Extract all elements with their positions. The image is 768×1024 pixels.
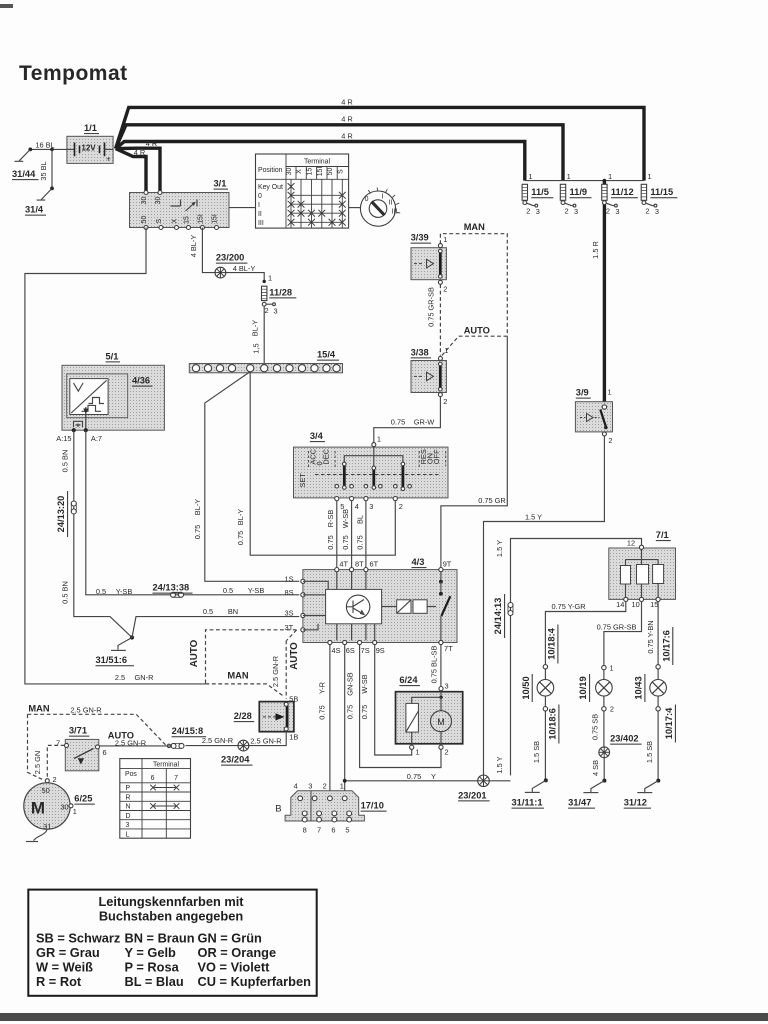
svg-text:W = Weiß: W = Weiß [36, 960, 93, 975]
svg-text:1: 1 [73, 807, 77, 816]
svg-text:2/28: 2/28 [234, 711, 252, 721]
svg-text:31/4: 31/4 [25, 205, 44, 215]
svg-text:L: L [126, 831, 130, 838]
svg-text:4 R: 4 R [146, 139, 158, 148]
svg-text:0.75 GR-SB: 0.75 GR-SB [597, 622, 637, 631]
svg-text:GR = Grau: GR = Grau [36, 945, 100, 960]
svg-text:1: 1 [340, 781, 344, 790]
svg-text:2.5 GN: 2.5 GN [33, 751, 42, 774]
svg-text:Leitungskennfarben mit: Leitungskennfarben mit [98, 894, 244, 909]
svg-text:11/28: 11/28 [269, 287, 292, 297]
svg-text:24/13:38: 24/13:38 [153, 583, 190, 593]
svg-text:AUTO: AUTO [289, 642, 300, 670]
svg-text:P: P [126, 785, 131, 792]
svg-text:0.75: 0.75 [193, 525, 202, 539]
svg-text:1,5: 1,5 [251, 343, 260, 353]
svg-text:2: 2 [53, 775, 57, 784]
svg-text:0.75 GR-SB: 0.75 GR-SB [427, 287, 436, 327]
svg-text:II: II [258, 211, 262, 218]
svg-text:24/13:20: 24/13:20 [56, 496, 66, 533]
svg-text:N: N [126, 804, 131, 811]
svg-text:4 R: 4 R [134, 148, 146, 157]
svg-text:1/1: 1/1 [84, 123, 97, 133]
svg-text:1: 1 [377, 435, 381, 444]
svg-text:1: 1 [648, 172, 652, 181]
svg-text:7: 7 [56, 739, 60, 748]
svg-text:3: 3 [445, 682, 449, 691]
svg-text:4 SB: 4 SB [591, 760, 600, 776]
svg-text:15: 15 [650, 600, 658, 609]
svg-text:15I: 15I [212, 214, 219, 224]
svg-text:Y: Y [431, 772, 436, 781]
svg-text:23/201: 23/201 [458, 790, 486, 800]
svg-text:3: 3 [655, 207, 659, 216]
svg-text:2.5: 2.5 [115, 673, 125, 682]
svg-text:2: 2 [526, 207, 530, 216]
svg-text:GN-R: GN-R [135, 673, 154, 682]
svg-text:BL-Y: BL-Y [193, 499, 202, 516]
svg-text:SB = Schwarz: SB = Schwarz [36, 931, 120, 946]
svg-text:4 BL-Y: 4 BL-Y [189, 235, 198, 258]
svg-text:7T: 7T [444, 644, 453, 653]
svg-text:35 BL: 35 BL [39, 161, 48, 180]
svg-text:50: 50 [327, 168, 334, 176]
svg-text:4 R: 4 R [341, 98, 353, 107]
svg-text:4/3: 4/3 [412, 557, 425, 567]
svg-text:7: 7 [174, 775, 178, 782]
svg-text:BL-Y: BL-Y [250, 320, 259, 337]
svg-text:1B: 1B [289, 733, 298, 742]
svg-text:30: 30 [141, 197, 148, 205]
svg-text:12V: 12V [81, 144, 96, 153]
svg-text:0.75: 0.75 [355, 535, 364, 549]
svg-text:X: X [172, 218, 179, 223]
svg-text:11/15: 11/15 [650, 187, 673, 197]
svg-text:4: 4 [294, 781, 298, 790]
svg-text:MAN: MAN [227, 671, 248, 681]
svg-text:1: 1 [608, 388, 612, 397]
svg-text:0.75 Y-GR: 0.75 Y-GR [551, 602, 585, 611]
svg-text:15/4: 15/4 [317, 350, 336, 360]
svg-text:2.5 GN-R: 2.5 GN-R [70, 705, 101, 714]
svg-text:R = Rot: R = Rot [36, 974, 82, 989]
svg-text:31/51:6: 31/51:6 [96, 655, 128, 665]
svg-text:CU = Kupferfarben: CU = Kupferfarben [198, 974, 312, 989]
svg-text:11/9: 11/9 [570, 187, 588, 197]
svg-text:1: 1 [567, 172, 571, 181]
svg-text:Key Out: Key Out [258, 184, 283, 191]
svg-text:A:15: A:15 [56, 434, 71, 443]
svg-text:0.75: 0.75 [407, 772, 421, 781]
svg-text:Y-SB: Y-SB [248, 586, 265, 595]
svg-text:0.75 BL-SB: 0.75 BL-SB [430, 646, 439, 684]
svg-text:GN = Grün: GN = Grün [198, 931, 263, 946]
svg-text:3/1: 3/1 [214, 179, 227, 189]
svg-text:0.75: 0.75 [391, 418, 405, 427]
svg-text:10/43: 10/43 [634, 676, 644, 699]
svg-text:1: 1 [268, 274, 272, 283]
svg-text:4/36: 4/36 [132, 376, 150, 386]
svg-text:0.5 BN: 0.5 BN [61, 581, 70, 604]
svg-text:A:7: A:7 [91, 434, 102, 443]
svg-text:3: 3 [615, 207, 619, 216]
svg-text:10/50: 10/50 [521, 676, 531, 699]
svg-text:15I: 15I [197, 214, 204, 224]
svg-text:Tempomat: Tempomat [19, 62, 128, 85]
svg-text:2: 2 [443, 285, 447, 294]
svg-text:8S: 8S [285, 588, 294, 597]
svg-text:9T: 9T [443, 559, 452, 568]
svg-text:10/18:4: 10/18:4 [547, 627, 557, 659]
svg-text:3/38: 3/38 [411, 347, 429, 357]
svg-text:I: I [382, 194, 384, 201]
svg-text:1.5 SB: 1.5 SB [645, 741, 654, 763]
svg-text:3: 3 [536, 207, 540, 216]
svg-text:1: 1 [610, 664, 614, 673]
svg-text:W-SB: W-SB [341, 509, 350, 528]
svg-text:3: 3 [574, 207, 578, 216]
svg-text:BN: BN [228, 607, 238, 616]
svg-text:GR-W: GR-W [414, 418, 435, 427]
svg-text:BL-Y: BL-Y [236, 509, 245, 526]
svg-text:2: 2 [323, 781, 327, 790]
svg-text:B: B [275, 804, 281, 815]
svg-text:MAN: MAN [28, 704, 49, 714]
svg-text:6/25: 6/25 [74, 794, 92, 804]
svg-text:2: 2 [265, 306, 269, 315]
svg-text:0.75 GR: 0.75 GR [478, 496, 506, 505]
svg-text:0.75: 0.75 [326, 535, 335, 549]
svg-text:3/4: 3/4 [310, 431, 324, 441]
svg-text:6: 6 [151, 775, 155, 782]
svg-text:3: 3 [369, 502, 373, 511]
svg-text:0: 0 [258, 193, 262, 200]
svg-text:3/71: 3/71 [69, 726, 87, 736]
svg-text:Y = Gelb: Y = Gelb [125, 945, 177, 960]
svg-text:3S: 3S [285, 609, 294, 618]
svg-text:31/44: 31/44 [12, 169, 36, 179]
svg-text:2.5 GN-R: 2.5 GN-R [271, 656, 280, 687]
svg-text:4 BL-Y: 4 BL-Y [233, 264, 256, 273]
svg-text:0.5: 0.5 [203, 607, 213, 616]
svg-text:14: 14 [616, 600, 624, 609]
svg-text:7: 7 [317, 825, 321, 834]
svg-text:0.75: 0.75 [236, 531, 245, 545]
svg-text:10/17:6: 10/17:6 [661, 630, 671, 662]
svg-text:31/11:1: 31/11:1 [512, 798, 543, 808]
svg-text:3: 3 [126, 822, 130, 829]
svg-text:10/17:4: 10/17:4 [664, 707, 674, 739]
svg-text:50: 50 [141, 216, 148, 224]
svg-text:BL: BL [355, 515, 364, 524]
svg-text:0.75 Y-BN: 0.75 Y-BN [646, 620, 655, 653]
svg-text:0.75: 0.75 [318, 705, 327, 719]
svg-text:23/200: 23/200 [216, 253, 244, 263]
svg-text:BL = Blau: BL = Blau [125, 974, 184, 989]
svg-text:6S: 6S [346, 646, 355, 655]
svg-text:III: III [258, 220, 264, 227]
svg-text:2: 2 [399, 502, 403, 511]
svg-text:1: 1 [608, 172, 612, 181]
svg-text:I: I [258, 202, 260, 209]
svg-text:+: + [106, 155, 111, 164]
svg-text:17/10: 17/10 [361, 801, 384, 811]
svg-text:0.75: 0.75 [341, 535, 350, 549]
svg-text:2: 2 [645, 207, 649, 216]
svg-text:R-SB: R-SB [326, 510, 335, 528]
svg-text:AUTO: AUTO [189, 639, 200, 667]
svg-text:30: 30 [155, 197, 162, 205]
svg-text:Pos: Pos [125, 771, 137, 778]
svg-text:2: 2 [606, 207, 610, 216]
svg-text:0.75: 0.75 [345, 705, 354, 719]
svg-text:3/39: 3/39 [411, 233, 429, 243]
svg-text:VO = Violett: VO = Violett [198, 960, 271, 975]
svg-text:1: 1 [444, 346, 448, 355]
svg-text:BN = Braun: BN = Braun [125, 931, 195, 946]
svg-text:24/15:8: 24/15:8 [172, 726, 204, 736]
svg-text:15I: 15I [317, 167, 324, 177]
svg-text:15: 15 [307, 168, 314, 176]
svg-text:9S: 9S [376, 646, 385, 655]
svg-text:3/9: 3/9 [576, 388, 589, 398]
svg-text:2: 2 [608, 436, 612, 445]
svg-text:2.5 GN-R: 2.5 GN-R [202, 736, 233, 745]
svg-text:1.5 Y: 1.5 Y [495, 540, 504, 557]
svg-text:III: III [392, 209, 398, 216]
svg-text:0.5: 0.5 [223, 586, 233, 595]
svg-text:Terminal: Terminal [153, 761, 180, 768]
svg-text:10/18:6: 10/18:6 [548, 708, 558, 740]
svg-text:0.75 SB: 0.75 SB [591, 714, 600, 740]
svg-text:8: 8 [303, 825, 307, 834]
svg-text:4S: 4S [332, 646, 341, 655]
svg-text:1: 1 [443, 235, 447, 244]
svg-text:50: 50 [41, 786, 49, 795]
svg-text:Position: Position [258, 167, 283, 174]
svg-text:4T: 4T [339, 559, 348, 568]
svg-text:7S: 7S [361, 646, 370, 655]
svg-text:11/12: 11/12 [611, 187, 634, 197]
svg-text:0.75: 0.75 [360, 705, 369, 719]
svg-text:2: 2 [443, 397, 447, 406]
svg-text:W-SB: W-SB [360, 674, 369, 693]
svg-text:12: 12 [627, 539, 635, 548]
svg-text:6/24: 6/24 [399, 675, 418, 685]
svg-text:S: S [337, 169, 344, 174]
svg-text:10: 10 [631, 600, 639, 609]
svg-text:1: 1 [528, 172, 532, 181]
svg-text:0.5 BN: 0.5 BN [61, 450, 70, 473]
svg-text:23/402: 23/402 [610, 734, 638, 744]
svg-text:1S: 1S [285, 574, 294, 583]
svg-text:Buchstaben angegeben: Buchstaben angegeben [99, 909, 244, 924]
svg-text:1.5 R: 1.5 R [591, 241, 600, 259]
svg-text:II: II [389, 200, 393, 207]
svg-text:6T: 6T [370, 559, 379, 568]
svg-text:M: M [31, 799, 45, 818]
svg-text:D: D [126, 813, 131, 820]
svg-text:1.5 SB: 1.5 SB [532, 741, 541, 763]
svg-text:4: 4 [355, 502, 359, 511]
svg-text:X: X [296, 169, 303, 174]
svg-text:DEC: DEC [321, 448, 330, 464]
svg-text:24/14:13: 24/14:13 [493, 598, 503, 635]
svg-text:6: 6 [103, 748, 107, 757]
svg-text:31/47: 31/47 [568, 798, 591, 808]
svg-text:31/12: 31/12 [624, 798, 647, 808]
svg-text:15: 15 [184, 216, 191, 224]
svg-text:3T: 3T [285, 623, 294, 632]
svg-text:2: 2 [565, 207, 569, 216]
svg-text:0.5: 0.5 [96, 587, 106, 596]
svg-text:2.5 GN-R: 2.5 GN-R [115, 738, 146, 747]
svg-text:10/19: 10/19 [578, 676, 588, 699]
svg-text:6: 6 [331, 825, 335, 834]
svg-text:5: 5 [345, 825, 349, 834]
svg-text:5/1: 5/1 [106, 351, 119, 361]
svg-text:2: 2 [445, 748, 449, 757]
svg-text:8T: 8T [355, 559, 364, 568]
svg-text:OFF: OFF [432, 449, 441, 464]
svg-text:2.5 GN-R: 2.5 GN-R [250, 736, 281, 745]
svg-text:SET: SET [298, 473, 307, 488]
svg-text:30: 30 [60, 802, 68, 811]
svg-text:7/1: 7/1 [656, 530, 669, 540]
svg-text:3: 3 [274, 307, 278, 316]
svg-text:1.5 Y: 1.5 Y [525, 512, 542, 521]
svg-text:3: 3 [308, 781, 312, 790]
svg-text:GN-SB: GN-SB [345, 672, 354, 695]
svg-text:30: 30 [286, 168, 293, 176]
svg-text:Terminal: Terminal [304, 159, 331, 166]
svg-text:0: 0 [365, 196, 369, 203]
svg-text:OR = Orange: OR = Orange [198, 945, 277, 960]
svg-text:2: 2 [610, 705, 614, 714]
svg-text:4 R: 4 R [341, 132, 353, 141]
svg-text:4 R: 4 R [341, 115, 353, 124]
svg-text:P = Rosa: P = Rosa [125, 960, 180, 975]
svg-text:23/204: 23/204 [221, 755, 250, 765]
svg-text:1: 1 [416, 748, 420, 757]
svg-text:AUTO: AUTO [464, 325, 490, 335]
svg-text:Y-R: Y-R [318, 682, 327, 694]
svg-text:11/5: 11/5 [531, 187, 549, 197]
svg-text:S: S [156, 218, 163, 223]
svg-text:MAN: MAN [464, 222, 485, 232]
svg-text:Y-SB: Y-SB [116, 587, 133, 596]
svg-text:1.5 Y: 1.5 Y [495, 756, 504, 773]
svg-text:M: M [437, 717, 445, 727]
svg-text:R: R [126, 794, 131, 801]
